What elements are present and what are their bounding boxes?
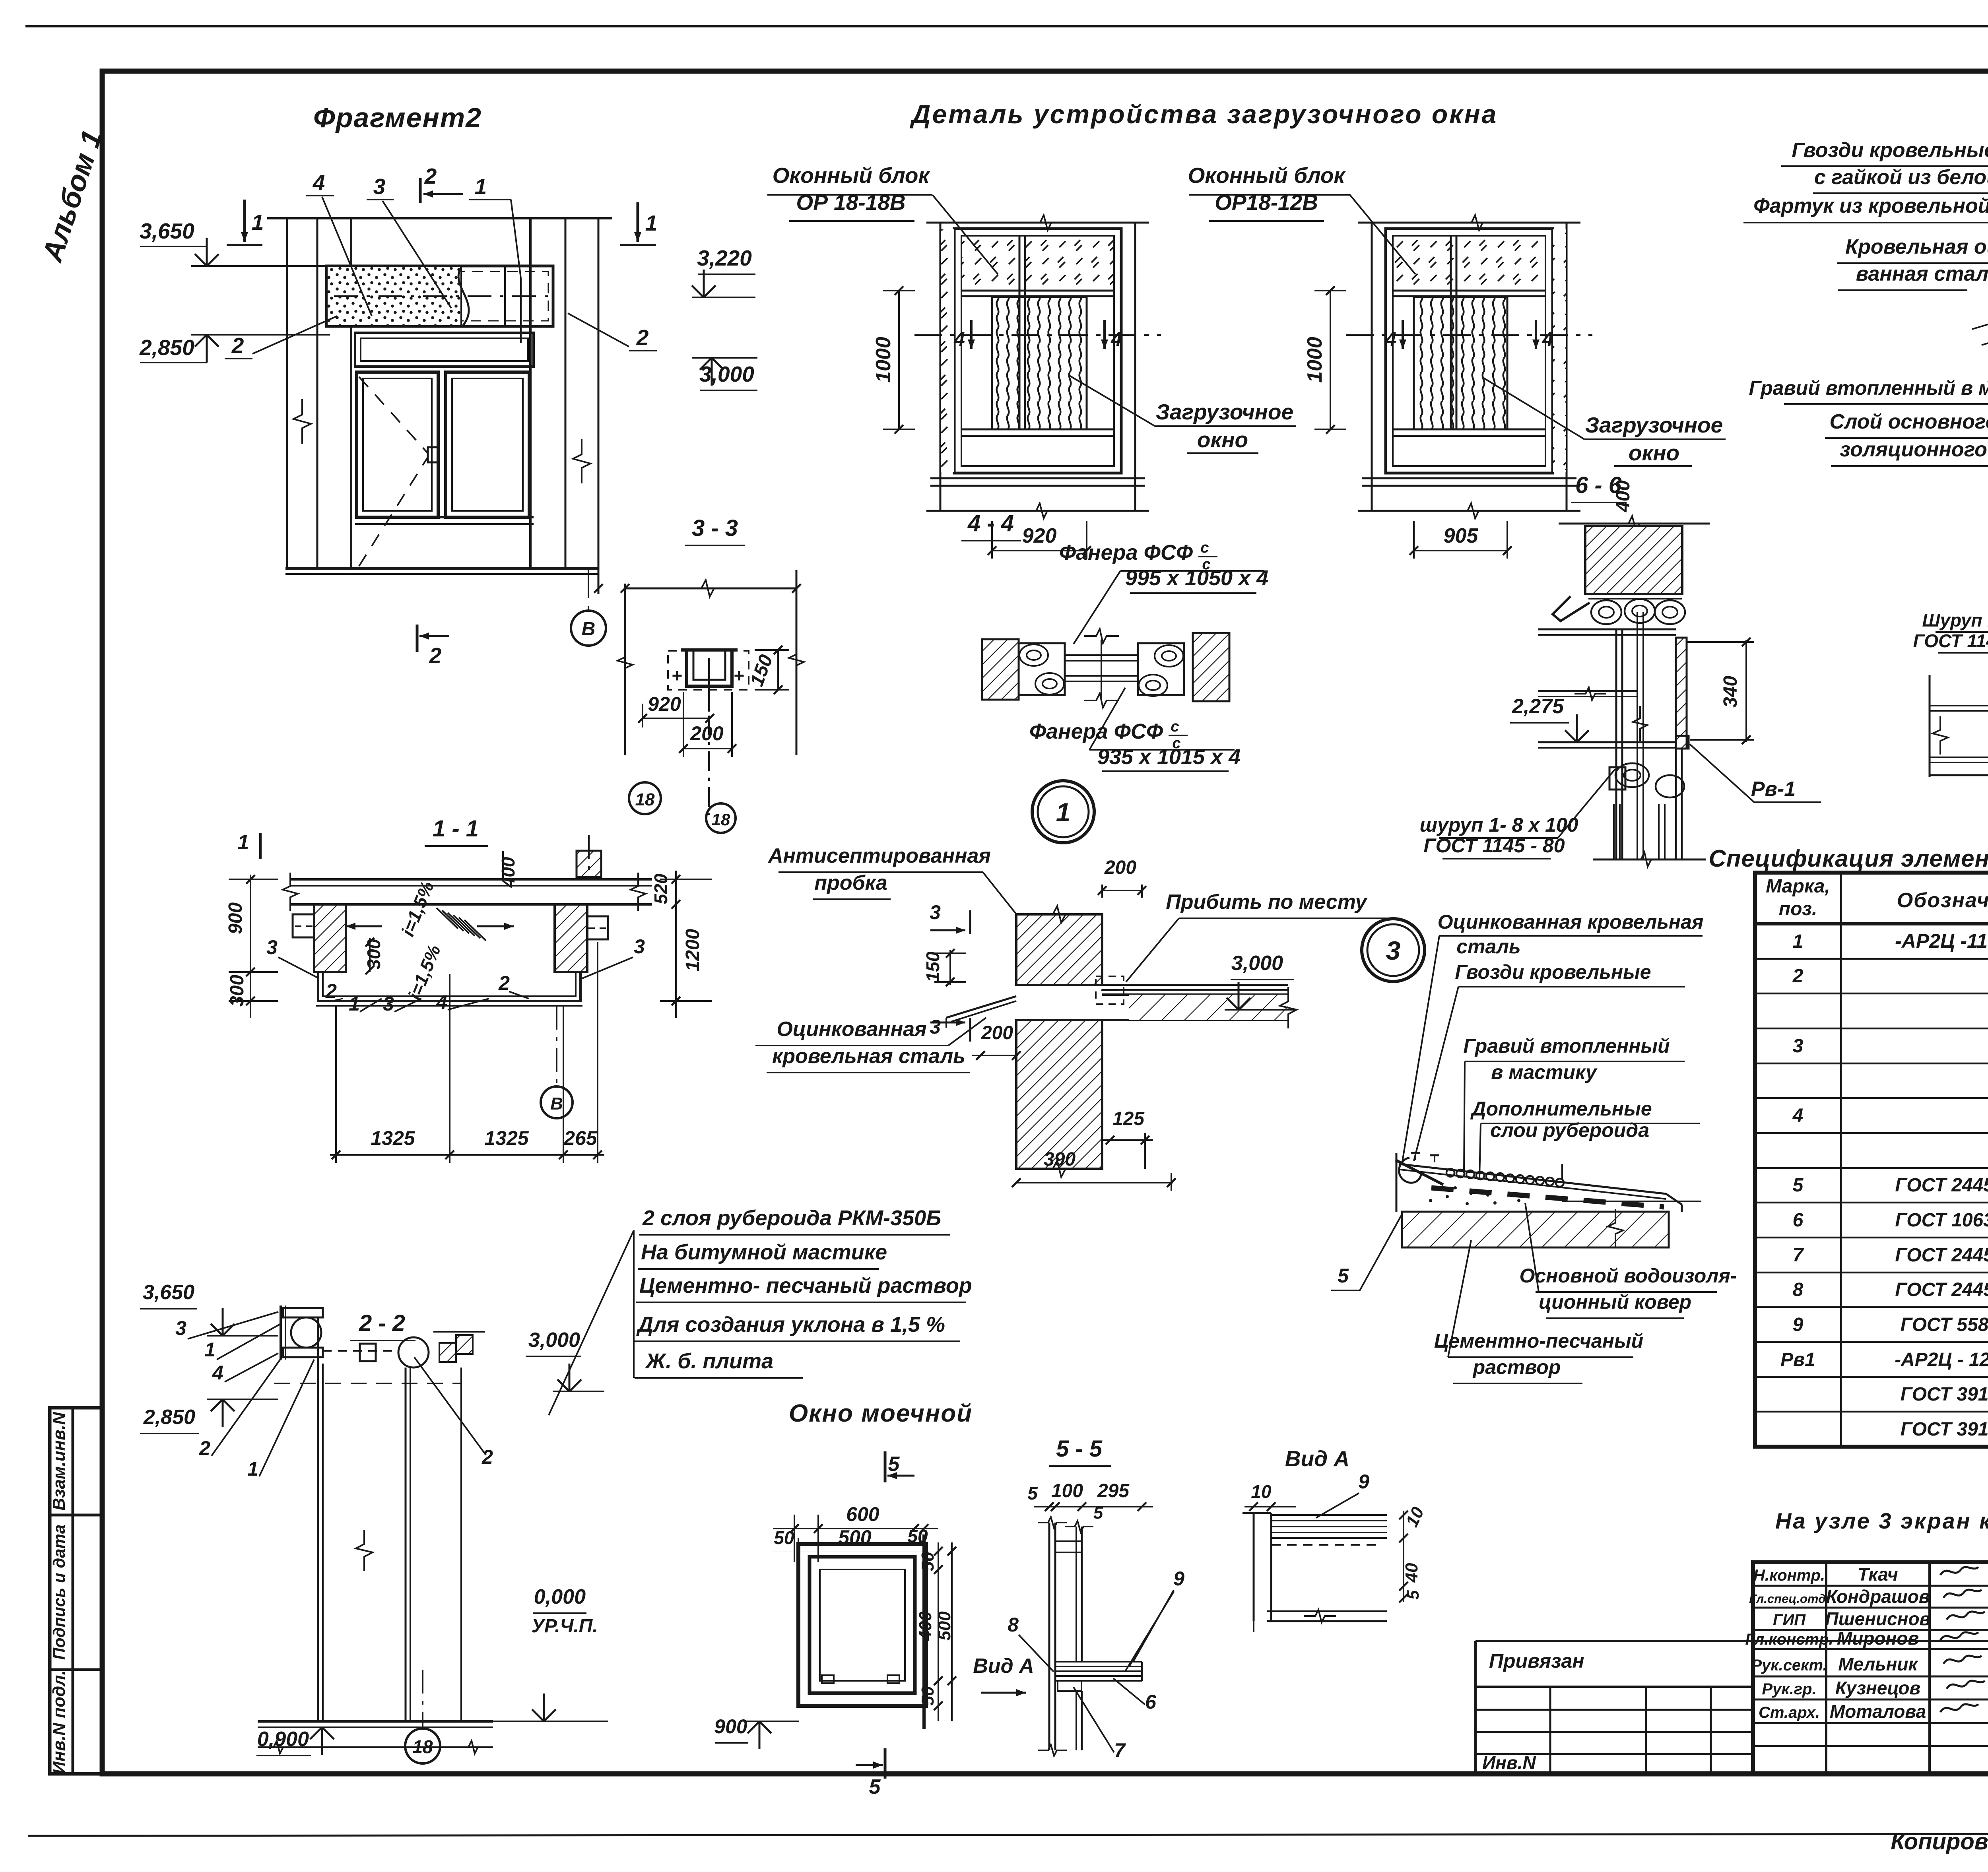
svg-text:Гл.констр.: Гл.констр.	[1745, 1631, 1833, 1648]
section 1-1 title	[425, 816, 488, 846]
svg-text:Основной водоизоля-: Основной водоизоля-	[1520, 1265, 1737, 1287]
svg-text:Кузнецов: Кузнецов	[1835, 1678, 1921, 1698]
svg-text:300: 300	[363, 939, 384, 969]
svg-text:100: 100	[1051, 1480, 1083, 1501]
svg-text:На битумной мастике: На битумной мастике	[641, 1240, 887, 1264]
svg-text:4: 4	[1542, 328, 1553, 350]
fragment2 callout 1 top	[469, 174, 521, 343]
svg-text:3,650: 3,650	[140, 219, 194, 243]
svg-text:Кондрашов: Кондрашов	[1826, 1586, 1930, 1607]
stamp label podpis	[50, 1525, 68, 1660]
fragment2 level 3.220	[692, 246, 755, 297]
section A-B-V sill drawing	[1930, 670, 1988, 785]
section 5-5 vid A arrow	[973, 1655, 1034, 1696]
title loading window detail	[910, 99, 1498, 129]
section 6-6 dim 340	[1686, 638, 1754, 744]
svg-text:4: 4	[1385, 328, 1396, 350]
svg-text:Инв.N: Инв.N	[1482, 1752, 1536, 1773]
svg-text:265: 265	[563, 1127, 598, 1149]
section 3-3 title	[685, 515, 745, 545]
svg-text:2,275: 2,275	[1512, 695, 1564, 718]
label plywood FSF bottom	[1029, 688, 1241, 771]
svg-text:0,000: 0,000	[534, 1585, 586, 1608]
title Fragment2	[313, 102, 482, 133]
title block outer	[1753, 1562, 1988, 1774]
svg-text:Вид А: Вид А	[1285, 1446, 1349, 1471]
node1 dim 125	[1102, 1108, 1153, 1169]
section 2-2 level 2.850	[140, 1399, 278, 1434]
svg-text:5: 5	[888, 1453, 900, 1476]
svg-text:Ж. б. плита: Ж. б. плита	[645, 1349, 773, 1373]
section 5-5 callouts	[1008, 1567, 1184, 1761]
copied by note	[1891, 1829, 1988, 1855]
node1 roof slab right	[1102, 985, 1297, 1028]
svg-text:400: 400	[916, 1611, 935, 1641]
okno 5 marker bottom	[856, 1748, 885, 1798]
svg-text:500: 500	[935, 1611, 954, 1641]
svg-text:600: 600	[846, 1503, 879, 1525]
svg-text:Деталь устройства загрузоч: Деталь устройства загрузочного окна	[910, 99, 1498, 129]
svg-text:Прибить по месту: Прибить по месту	[1166, 890, 1368, 914]
okno top dims	[773, 1503, 938, 1562]
svg-text:1: 1	[204, 1339, 215, 1361]
svg-text:1: 1	[238, 831, 249, 854]
label screw shurup top-right	[1913, 610, 1988, 671]
svg-text:Ст.арх.: Ст.арх.	[1759, 1704, 1820, 1721]
svg-text:поз.: поз.	[1779, 898, 1817, 920]
svg-text:Подпись и дата: Подпись и дата	[50, 1525, 68, 1660]
svg-text:2: 2	[429, 643, 442, 668]
svg-text:40: 40	[1402, 1563, 1421, 1583]
svg-text:4: 4	[313, 170, 325, 195]
fragment2 section marker 1 left	[227, 200, 264, 245]
svg-text:-АР2Ц - 12 00 00: -АР2Ц - 12 00 00	[1895, 1349, 1988, 1370]
svg-text:1325: 1325	[371, 1127, 415, 1149]
svg-text:6: 6	[1793, 1210, 1804, 1231]
svg-text:окно: окно	[1629, 440, 1679, 465]
svg-text:900: 900	[714, 1715, 747, 1738]
svg-text:ГОСТ 24454 - 80: ГОСТ 24454 - 80	[1895, 1175, 1988, 1196]
svg-text:3,000: 3,000	[699, 362, 754, 386]
svg-text:1: 1	[645, 211, 658, 235]
section 5-5 dims top	[1027, 1480, 1153, 1523]
window block OR 18-18V drawing	[872, 215, 1161, 559]
fragment2 section marker 2 bottom	[417, 625, 449, 668]
node1 level 3000	[1225, 952, 1294, 1010]
stamp label vzam	[49, 1412, 69, 1511]
svg-text:Моталова: Моталова	[1830, 1701, 1926, 1722]
svg-text:Привязан: Привязан	[1489, 1650, 1584, 1672]
axis circle 18 b	[706, 803, 736, 833]
svg-text:Цементно-песчаный: Цементно-песчаный	[1434, 1330, 1643, 1352]
svg-text:Фрагмент2: Фрагмент2	[313, 102, 482, 133]
section 6-6 dim 400 top	[1613, 480, 1634, 512]
section 2-2 level 0.000	[493, 1585, 608, 1721]
fragment2 lintel panel	[326, 266, 553, 326]
svg-text:18: 18	[412, 1736, 433, 1757]
spec table rows text	[1780, 930, 1988, 1448]
svg-text:ГОСТ 24454 - 80: ГОСТ 24454 - 80	[1895, 1245, 1988, 1266]
svg-text:5: 5	[1793, 1175, 1804, 1196]
title okno moechnoy	[789, 1400, 973, 1427]
fragment2 callout 2 top	[420, 164, 463, 203]
node1 wall upper hatched	[1016, 906, 1102, 985]
svg-text:1: 1	[247, 1458, 258, 1480]
section 2-2 level 3.650	[140, 1281, 278, 1336]
node3 callout 5	[1331, 1216, 1401, 1290]
svg-text:6: 6	[1145, 1691, 1157, 1713]
node circle 1	[1032, 781, 1094, 843]
svg-text:1: 1	[1793, 931, 1804, 952]
svg-text:150: 150	[922, 951, 943, 982]
svg-text:ванная сталь: ванная сталь	[1856, 262, 1988, 285]
svg-text:2: 2	[498, 972, 510, 994]
svg-text:3,000: 3,000	[1231, 952, 1283, 975]
okno level 900	[714, 1715, 799, 1749]
svg-text:Рук.сект.: Рук.сект.	[1751, 1657, 1827, 1674]
node1 dim 390	[1012, 1149, 1176, 1191]
svg-text:золяционного ковра: золяционного ковра	[1840, 438, 1988, 461]
node2 label main waterproof layer	[1825, 354, 1988, 466]
svg-text:400: 400	[498, 857, 518, 888]
svg-text:ГОСТ 24454 - 80: ГОСТ 24454 - 80	[1895, 1279, 1988, 1300]
svg-text:8: 8	[1793, 1279, 1804, 1300]
materials list text block	[549, 1206, 972, 1415]
svg-text:3 - 3: 3 - 3	[692, 515, 738, 541]
section 1-1 dims right	[650, 871, 712, 1018]
svg-text:905: 905	[1444, 524, 1479, 547]
svg-text:Фанера ФСФ: Фанера ФСФ	[1029, 720, 1163, 743]
svg-text:ГОСТ 10632 - 77: ГОСТ 10632 - 77	[1895, 1210, 1988, 1231]
svg-text:слои рубероида: слои рубероида	[1490, 1119, 1649, 1141]
section 1-1 right pier	[555, 904, 608, 972]
okno right dims	[916, 1542, 956, 1721]
vid A dims	[1244, 1470, 1428, 1602]
svg-text:2: 2	[481, 1446, 493, 1468]
fragment2 section marker 1 right	[620, 202, 657, 245]
svg-text:3,000: 3,000	[528, 1329, 580, 1352]
svg-text:Оцинкованная кровельная: Оцинкованная кровельная	[1438, 911, 1704, 933]
node1 plug dashed	[1096, 976, 1124, 1004]
svg-text:кровельная сталь: кровельная сталь	[772, 1045, 965, 1068]
svg-text:Рук.гр.: Рук.гр.	[1762, 1680, 1816, 1698]
title block stadia list listov	[1475, 1641, 1988, 1706]
svg-text:Обозначение: Обозначение	[1897, 889, 1988, 912]
svg-text:Вид А: Вид А	[973, 1655, 1034, 1678]
svg-text:Слой основного водои-: Слой основного водои-	[1829, 410, 1988, 433]
svg-text:-АР2Ц -11.00 00: -АР2Ц -11.00 00	[1895, 930, 1988, 952]
section 1-1 slab band	[283, 835, 652, 911]
svg-text:На узле 3 экран козырька: На узле 3 экран козырька условно не пока…	[1775, 1508, 1988, 1533]
svg-text:2: 2	[636, 325, 649, 350]
section 3-3 drawing	[617, 570, 804, 815]
svg-text:Фартук из кровельной стали: Фартук из кровельной стали	[1753, 194, 1988, 217]
node1 dim 200 top	[1098, 857, 1146, 898]
left margin stamp boxes	[50, 1408, 102, 1774]
section 2-2 top corner detail	[281, 1306, 485, 1368]
svg-text:3,220: 3,220	[697, 246, 752, 270]
svg-text:3: 3	[383, 993, 394, 1015]
svg-text:с гайкой из белой жести: с гайкой из белой жести	[1814, 166, 1988, 189]
fragment2 callout 4	[306, 170, 372, 316]
svg-text:УР.Ч.П.: УР.Ч.П.	[531, 1616, 598, 1637]
svg-text:9: 9	[1793, 1314, 1804, 1335]
svg-text:Оцинкованная: Оцинкованная	[777, 1018, 926, 1041]
svg-text:пробка: пробка	[814, 871, 887, 894]
spec table grid	[1755, 873, 1988, 1447]
svg-text:Оконный блок: Оконный блок	[773, 163, 931, 188]
fragment2 level 2.850	[139, 335, 330, 363]
svg-text:3: 3	[175, 1317, 186, 1339]
fragment2 door swing dashed	[359, 377, 428, 566]
svg-text:4: 4	[1792, 1105, 1804, 1126]
handwritten album note	[36, 126, 109, 266]
svg-text:4: 4	[436, 991, 447, 1013]
svg-text:4: 4	[1110, 328, 1122, 350]
svg-text:5: 5	[1338, 1265, 1349, 1287]
svg-text:935 х 1015 х 4: 935 х 1015 х 4	[1097, 745, 1241, 769]
fragment2 callout 2 left	[225, 316, 337, 359]
note under spec table	[1775, 1508, 1988, 1533]
svg-text:Загрузочное: Загрузочное	[1585, 413, 1723, 437]
node3 label cement mortar	[1434, 1240, 1643, 1383]
svg-text:0,900: 0,900	[257, 1728, 309, 1751]
axis circle V upper	[571, 611, 606, 646]
section 5-5 drawing	[1038, 1517, 1142, 1756]
svg-text:Инв.N подл.: Инв.N подл.	[49, 1670, 69, 1774]
svg-text:Гвозди кровельные: Гвозди кровельные	[1455, 961, 1651, 983]
node2 label gravel in mastic	[1749, 314, 1988, 404]
svg-text:390: 390	[1044, 1149, 1076, 1170]
svg-text:Гравий втопленный: Гравий втопленный	[1463, 1035, 1670, 1057]
svg-text:3: 3	[930, 901, 941, 923]
spec table title	[1708, 845, 1988, 872]
section 2-2 callouts	[175, 1312, 493, 1480]
svg-text:2,850: 2,850	[139, 335, 194, 360]
svg-text:раствор: раствор	[1472, 1356, 1561, 1378]
svg-text:ГИП: ГИП	[1773, 1611, 1806, 1629]
svg-text:10: 10	[1251, 1481, 1272, 1502]
section 6-6 drawing	[1538, 516, 1710, 867]
svg-text:окно: окно	[1197, 427, 1248, 452]
section 2-2 title	[350, 1310, 415, 1340]
node3 label main waterproof	[1520, 1203, 1737, 1318]
svg-text:18: 18	[712, 810, 730, 829]
svg-text:Окно моечной: Окно моечной	[789, 1400, 973, 1427]
section 6-6 title	[1571, 472, 1625, 502]
svg-text:18: 18	[635, 790, 655, 809]
node3 label gravel	[1463, 1035, 1685, 1173]
section 2-2 axis circle 18	[405, 1670, 440, 1763]
svg-text:ГОСТ 3916 - 69: ГОСТ 3916 - 69	[1901, 1419, 1988, 1440]
svg-text:1000: 1000	[872, 337, 895, 383]
fragment2 wall elevation	[267, 218, 612, 594]
node1 cut marks 3	[930, 901, 970, 1042]
svg-text:Мельник: Мельник	[1838, 1654, 1918, 1674]
svg-text:50: 50	[918, 1552, 938, 1571]
node2 label galvanized steel	[1837, 235, 1988, 290]
svg-text:Оконный блок: Оконный блок	[1188, 163, 1346, 188]
section 2-2 level 3.000	[526, 1329, 604, 1391]
node1 wall lower hatched	[1016, 1020, 1102, 1177]
svg-text:ГОСТ 5582 - 75: ГОСТ 5582 - 75	[1901, 1314, 1988, 1335]
label plywood FSF top	[1059, 539, 1268, 644]
svg-text:Гравий втопленный в мастику: Гравий втопленный в мастику	[1749, 377, 1988, 399]
svg-text:ГОСТ 1145 - 80: ГОСТ 1145 - 80	[1913, 630, 1988, 651]
fragment2 axis chain line	[588, 570, 589, 611]
svg-text:5: 5	[1027, 1483, 1038, 1503]
svg-text:9: 9	[1358, 1470, 1369, 1493]
svg-text:Цементно- песчаный раствор: Цементно- песчаный раствор	[639, 1274, 972, 1298]
section 1-1 left pier	[293, 904, 346, 972]
svg-text:50: 50	[918, 1686, 938, 1705]
svg-text:В: В	[550, 1094, 563, 1114]
svg-text:в мастику: в мастику	[1491, 1061, 1598, 1083]
section 1-1 dims left	[225, 875, 278, 1018]
svg-text:3: 3	[634, 935, 645, 958]
svg-text:ОР 18-18В: ОР 18-18В	[796, 190, 905, 215]
svg-text:3: 3	[1386, 936, 1401, 965]
stamp label inv	[49, 1670, 69, 1774]
svg-text:2 слоя рубероида РКМ-350Б: 2 слоя рубероида РКМ-350Б	[642, 1206, 941, 1230]
svg-text:340: 340	[1720, 676, 1741, 708]
section 4-4 drawing	[982, 629, 1229, 708]
window block OR 18-12V drawing	[1303, 215, 1592, 559]
svg-text:9: 9	[1173, 1567, 1184, 1590]
svg-text:2 - 2: 2 - 2	[359, 1310, 405, 1336]
node circle 3	[1362, 919, 1425, 982]
svg-text:1: 1	[349, 993, 360, 1015]
fragment2 callout 3	[367, 174, 451, 308]
section 6-6 level 2.275	[1510, 695, 1589, 742]
section 1-1 dim 400 300	[363, 851, 518, 974]
svg-text:В: В	[582, 619, 596, 640]
section 2-2 level 0.900	[256, 1727, 334, 1756]
svg-text:520: 520	[650, 873, 671, 904]
node3 label galvanized steel	[1402, 911, 1703, 1162]
window block OR 18-12V label	[1188, 163, 1415, 274]
svg-text:2: 2	[325, 980, 337, 1002]
svg-text:995 х 1050 х 4: 995 х 1050 х 4	[1125, 566, 1268, 590]
privyazan extension table	[1475, 1641, 1753, 1774]
node1 label galvanized steel	[755, 1018, 986, 1073]
svg-text:Рв-1: Рв-1	[1751, 778, 1796, 801]
node1 dim 150	[922, 949, 966, 986]
svg-text:ГОСТ 3916 - 69: ГОСТ 3916 - 69	[1901, 1384, 1988, 1405]
svg-text:7: 7	[1793, 1245, 1804, 1266]
svg-text:200: 200	[690, 722, 724, 745]
svg-text:с: с	[1200, 539, 1209, 556]
svg-text:1200: 1200	[682, 929, 703, 971]
svg-text:Антисептированная: Антисептированная	[767, 844, 991, 867]
svg-text:200: 200	[981, 1022, 1013, 1044]
svg-text:Взам.инв.N: Взам.инв.N	[49, 1412, 69, 1511]
fragment2 level 3.650	[140, 219, 330, 266]
svg-text:Рв1: Рв1	[1780, 1349, 1815, 1370]
svg-text:2: 2	[424, 164, 437, 188]
section 2-2 base	[258, 1721, 493, 1754]
svg-text:Копировал Фомушкина: Копировал Фомушкина	[1891, 1829, 1988, 1855]
svg-text:400: 400	[1613, 480, 1634, 512]
section 4-4 title	[961, 510, 1021, 541]
loading window label right	[1483, 378, 1726, 466]
svg-text:4 - 4: 4 - 4	[967, 510, 1014, 536]
svg-text:4: 4	[212, 1362, 223, 1384]
svg-text:Пшениснов: Пшениснов	[1825, 1608, 1931, 1629]
svg-text:Для создания уклона в 1,5 %: Для создания уклона в 1,5 %	[636, 1313, 945, 1337]
svg-text:1: 1	[1056, 797, 1071, 827]
svg-text:920: 920	[648, 693, 681, 715]
node1 label pribit	[1126, 890, 1388, 982]
section 1-1 callouts	[238, 831, 645, 1015]
spec table headers	[1766, 876, 1988, 920]
svg-text:Кровельная оцинко-: Кровельная оцинко-	[1845, 235, 1988, 258]
svg-text:1000: 1000	[1303, 337, 1326, 383]
svg-text:шуруп 1- 8 х 100: шуруп 1- 8 х 100	[1420, 814, 1578, 836]
okno 5 marker top	[885, 1451, 914, 1482]
svg-text:3,650: 3,650	[143, 1281, 194, 1304]
svg-text:1: 1	[475, 174, 487, 199]
section 5-5 title	[1049, 1436, 1111, 1466]
vid A drawing	[1242, 1513, 1387, 1632]
svg-text:5: 5	[1404, 1590, 1422, 1600]
node3 label additional ruberoid	[1470, 1098, 1700, 1178]
svg-text:+: +	[672, 665, 682, 686]
svg-text:50: 50	[774, 1527, 794, 1548]
svg-text:2,850: 2,850	[143, 1406, 195, 1429]
node2 deck slab hatched	[1972, 310, 1988, 371]
svg-text:ОР18-12В: ОР18-12В	[1215, 190, 1318, 215]
node3 sloped roof drawing	[1396, 1152, 1701, 1247]
svg-text:Спецификация элементов зама: Спецификация элементов замаркированных н…	[1708, 845, 1988, 872]
label Rv-1	[1690, 744, 1821, 802]
section 1-1 axis V bottom	[541, 1006, 573, 1118]
svg-text:5 - 5: 5 - 5	[1056, 1436, 1103, 1462]
vid A title	[1285, 1446, 1349, 1471]
svg-text:Дополнительные: Дополнительные	[1470, 1098, 1652, 1120]
signature table	[1745, 1562, 1988, 1774]
svg-text:Шуруп 1- 8 х 100: Шуруп 1- 8 х 100	[1922, 610, 1988, 630]
section 1-1 tray	[316, 972, 582, 1006]
svg-text:500: 500	[838, 1526, 872, 1548]
section 6-6 screw label bottom	[1420, 769, 1615, 859]
node2 label nails K3.6x40	[1781, 139, 1988, 221]
svg-text:8: 8	[1008, 1614, 1019, 1636]
okno window plan drawing	[798, 1534, 926, 1729]
svg-text:2: 2	[1792, 966, 1804, 987]
svg-text:Ткач: Ткач	[1858, 1564, 1898, 1585]
svg-text:920: 920	[1022, 524, 1057, 547]
svg-text:+: +	[734, 665, 744, 686]
fragment2 level 3.000	[692, 358, 757, 390]
svg-text:Марка,: Марка,	[1766, 876, 1830, 897]
svg-text:3: 3	[1793, 1036, 1804, 1057]
svg-text:Н.контр.: Н.контр.	[1753, 1567, 1825, 1584]
section 2-2 vertical panel	[274, 1317, 461, 1721]
node1 label antiseptic plug	[767, 844, 1074, 986]
svg-text:с: с	[1171, 718, 1179, 735]
node2 label apron	[1743, 194, 1988, 252]
loading window label left	[1070, 376, 1296, 453]
node1 dim 200 bottom	[972, 1022, 1021, 1060]
svg-text:125: 125	[1112, 1108, 1145, 1129]
svg-text:Гвозди кровельные К3,6 х 40: Гвозди кровельные К3,6 х 40	[1792, 139, 1988, 162]
svg-text:3: 3	[373, 174, 386, 199]
svg-text:4: 4	[953, 328, 965, 350]
svg-text:5: 5	[869, 1775, 881, 1798]
svg-text:295: 295	[1097, 1480, 1130, 1501]
svg-text:сталь: сталь	[1456, 935, 1520, 958]
